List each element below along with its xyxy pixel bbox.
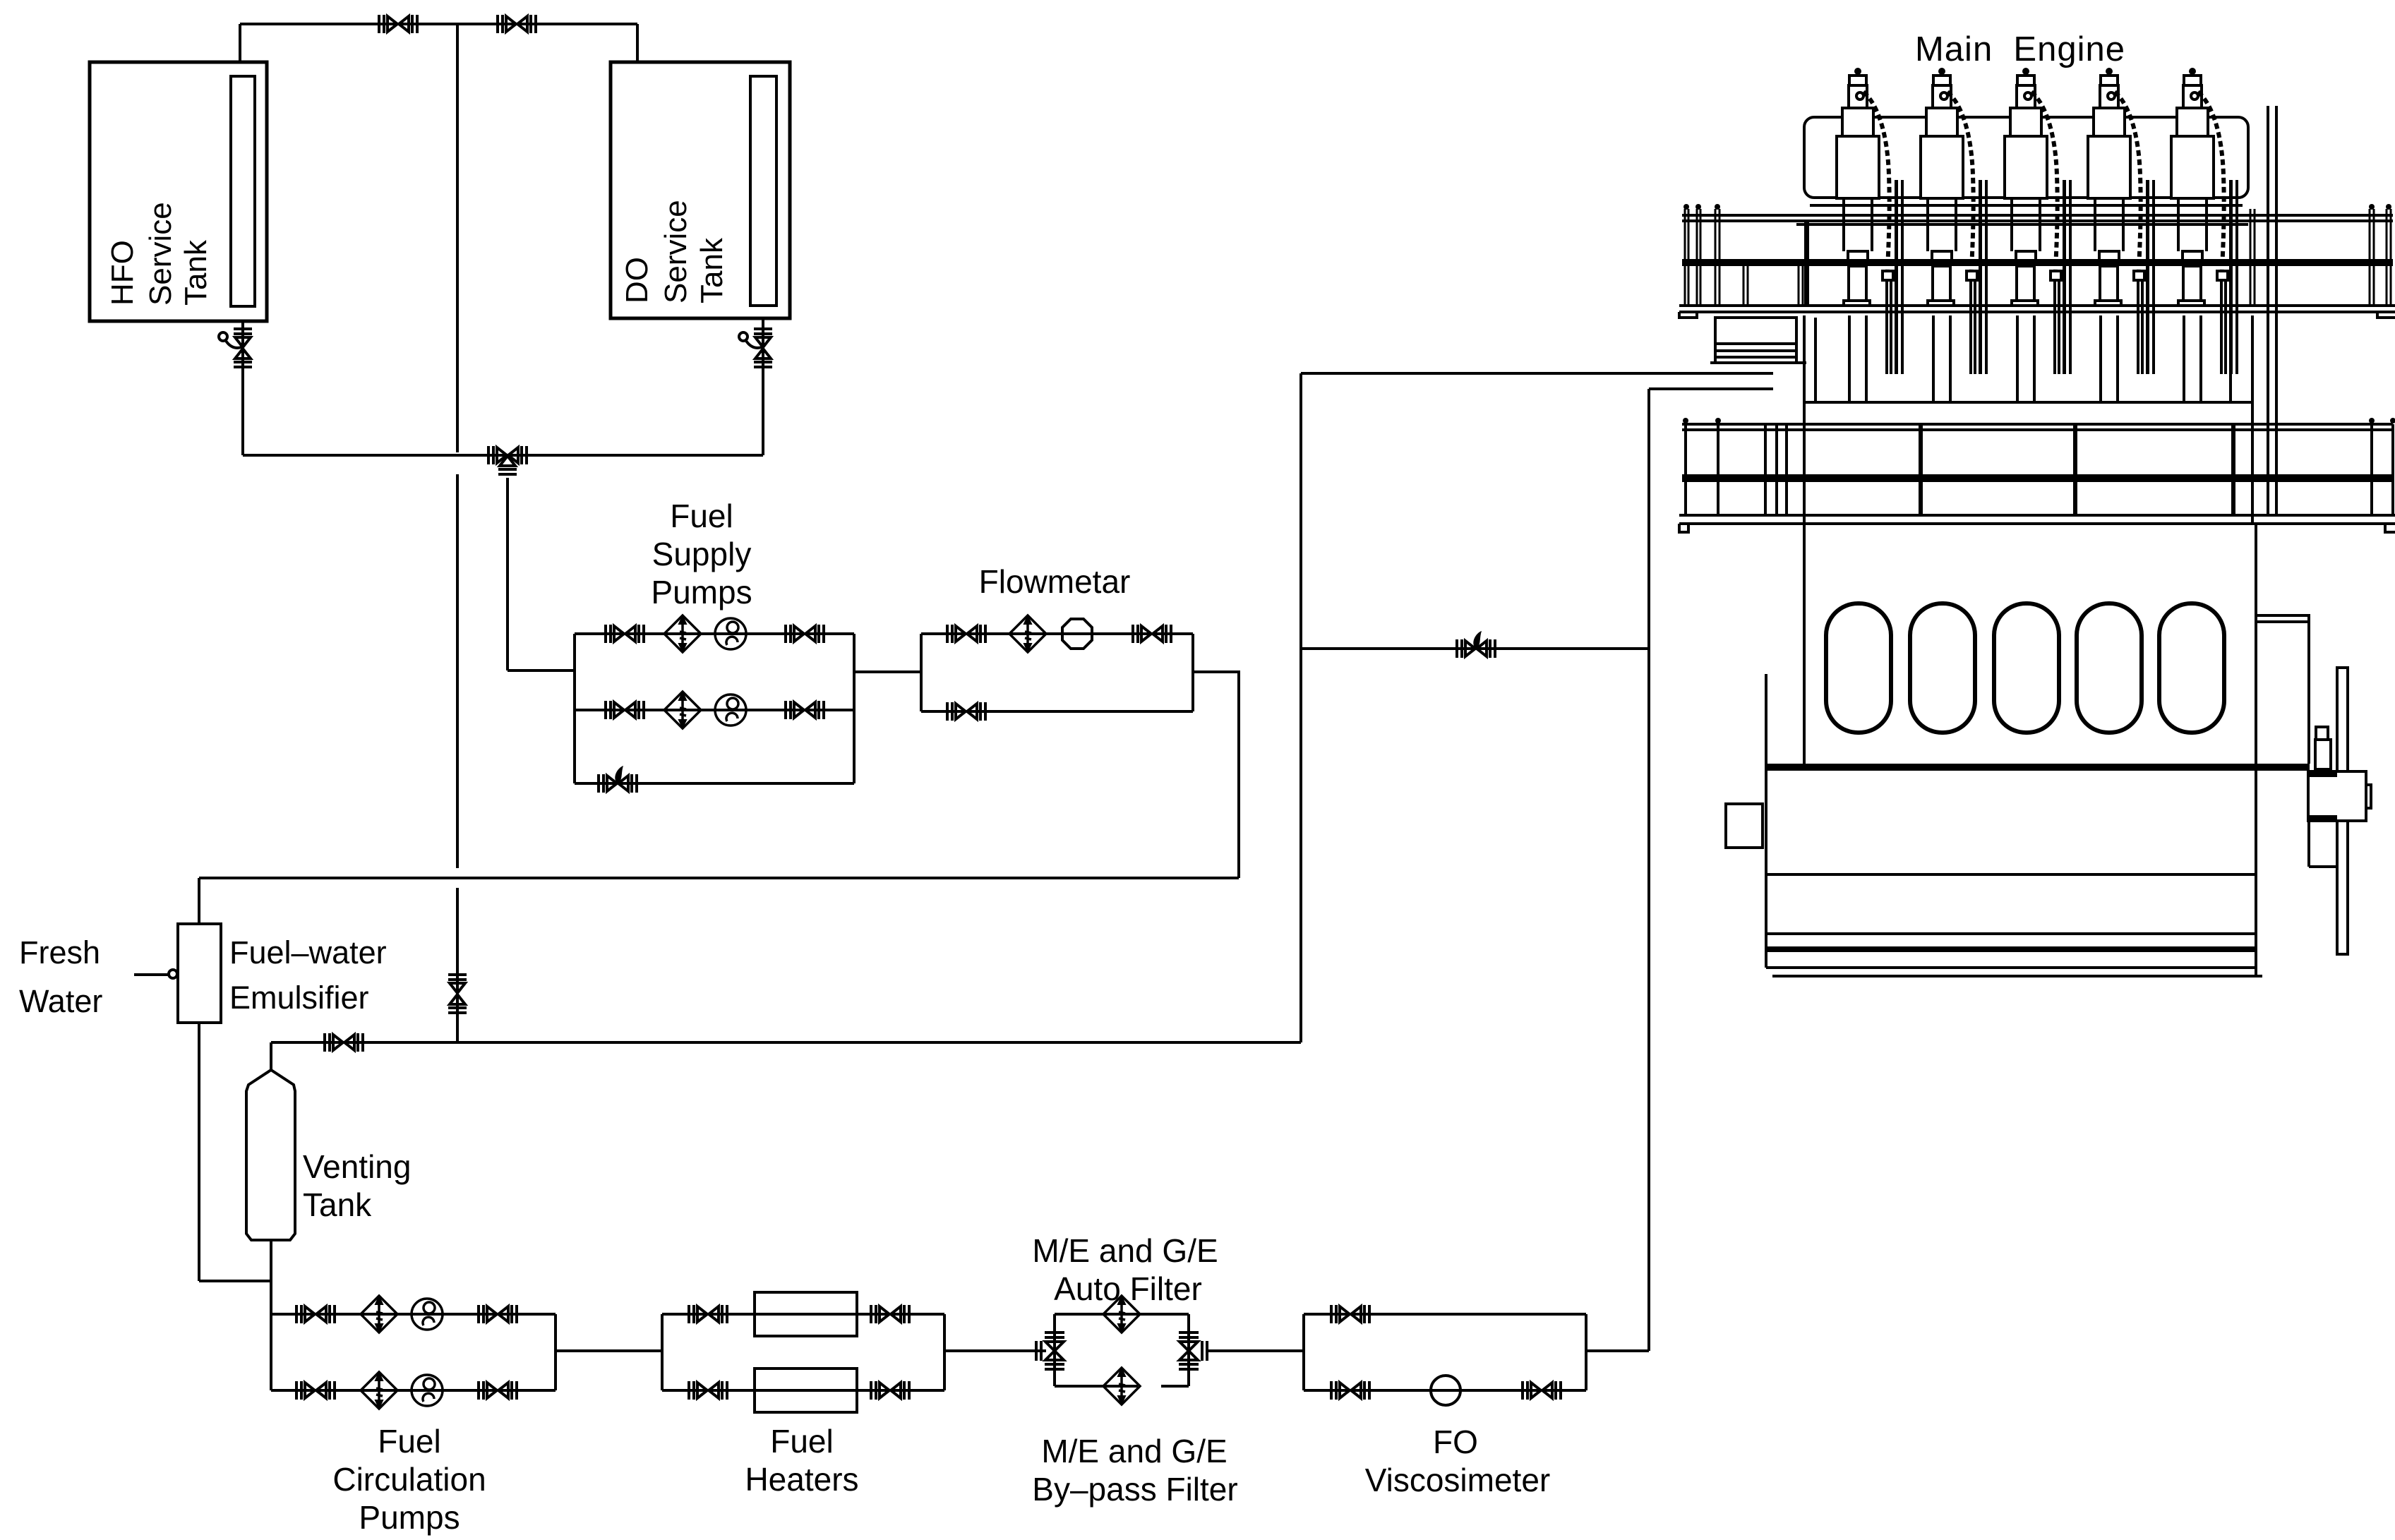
svg-text:Venting: Venting: [303, 1148, 411, 1185]
wire flowmeter top rail: [921, 632, 1193, 635]
crankcase door no.1: [1826, 603, 1891, 733]
main engine cylinder unit no.2: [1921, 68, 1988, 402]
svg-text:Tank: Tank: [179, 239, 213, 306]
lower platform floor bottom: [1679, 522, 2395, 525]
valve V8 supply pump no.1 discharge: [786, 625, 824, 643]
wire viscosimeter bottom rail: [1304, 1389, 1586, 1392]
svg-text:Fuel–water: Fuel–water: [229, 934, 387, 970]
flywheel disc: [2337, 668, 2348, 954]
skirt box below upper floor left: [1715, 318, 1796, 363]
valve V15 venting tank inlet: [325, 1033, 363, 1052]
fresh water injection line: [134, 973, 168, 976]
engine mid band left side: [1803, 315, 1806, 523]
filter F5 circulation pump no.2: [361, 1372, 397, 1409]
wire crossover bypass line: [1301, 647, 1649, 650]
lower railing middle posts: [1921, 424, 2233, 515]
exhaust duct verticals right side: [2268, 106, 2276, 515]
fuel supply pump unit box: [573, 634, 576, 783]
svg-text:FO: FO: [1433, 1424, 1478, 1460]
filter F4 circulation pump no.1: [361, 1296, 397, 1333]
valve V26 filter outlet junction (vertical bowtie): [1179, 1333, 1199, 1369]
HFO service tank T1: [90, 62, 267, 321]
lower platform handrail top: [1682, 423, 2393, 426]
lower railing posts left cluster: [1686, 424, 1804, 515]
DO service tank T2: [611, 62, 790, 318]
wire viscosimeter box right edge: [1585, 1314, 1587, 1390]
main engine entablature housing: [1804, 117, 2248, 198]
svg-text:Emulsifier: Emulsifier: [229, 980, 369, 1016]
valve V12 flowmeter inlet: [947, 625, 985, 643]
wire return drop into emulsifier: [198, 878, 200, 924]
lower platform handrail second line: [1682, 428, 2393, 431]
wire engine return top run: [1301, 372, 1773, 375]
svg-text:Tank: Tank: [303, 1186, 372, 1223]
bedplate thick band: [1766, 946, 2256, 952]
svg-text:Fresh: Fresh: [19, 934, 100, 970]
wire coupling lower stem: [2307, 821, 2310, 867]
wire filter block left riser: [1053, 1314, 1056, 1386]
filter block inlet flanges: [1036, 1341, 1041, 1361]
flowmeter unit box left edge: [920, 634, 923, 711]
oil pan split line (thick): [1766, 764, 2310, 771]
skirt struts below upper floor: [1815, 318, 2231, 402]
wire emulsifier outlet run to pump suction: [199, 1280, 271, 1282]
wire vent standpipe middle segment (hop gap at manifold): [456, 474, 459, 868]
fuel circulation pumps box left edge: [270, 1314, 272, 1390]
filter F7 by-pass filter: [1103, 1368, 1140, 1404]
upper railing posts right cluster: [2250, 209, 2391, 306]
wire venting tank outlet drop: [270, 1240, 272, 1314]
bedplate rail line 2: [1766, 932, 2256, 935]
valve V19 circulation pump no.2 suction: [296, 1381, 335, 1400]
wire vent standpipe upper segment: [456, 24, 459, 452]
upper railing lower posts left: [1743, 266, 1803, 306]
lower platform mid rail (thick): [1682, 474, 2393, 482]
svg-text:Fuel: Fuel: [378, 1423, 440, 1460]
wire venting tank neck: [270, 1042, 272, 1070]
main engine cylinder unit no.5: [2171, 68, 2238, 402]
wire HFO outlet drop: [241, 321, 244, 455]
svg-text:Fuel: Fuel: [770, 1423, 833, 1460]
upper railing post finials: [1683, 204, 2391, 210]
HFO tank sounding pipe: [231, 76, 255, 306]
lower platform floor top: [1679, 514, 2395, 517]
wire vent/overflow line to venting tank: [271, 1041, 1301, 1044]
valve V2 on fill header: [498, 15, 536, 33]
wire selector outlet drop to supply pumps: [506, 478, 509, 670]
valve V17 circulation pump no.1 suction: [296, 1305, 335, 1323]
filter F1 supply pump no.1: [664, 615, 701, 652]
svg-text:Tank: Tank: [695, 237, 729, 303]
svg-text:By–pass Filter: By–pass Filter: [1032, 1471, 1237, 1508]
valve V21 heater no.1 inlet: [689, 1305, 727, 1323]
svg-text:Viscosimeter: Viscosimeter: [1365, 1462, 1550, 1498]
wire circulation to heaters: [556, 1349, 662, 1352]
valve V4 HFO tank outlet (quick-closing): [219, 329, 252, 367]
wire tank outlet manifold: [243, 454, 763, 457]
wire HFO tank top riser: [239, 24, 241, 62]
coupling bottom dark band: [2308, 815, 2337, 821]
crankcase door no.2: [1910, 603, 1975, 733]
wire flowmeter outlet jog: [1193, 672, 1239, 878]
wire filter block right riser: [1187, 1314, 1190, 1386]
valve V11 supply bypass relief: [599, 766, 637, 793]
wire DO tank top riser: [636, 24, 639, 62]
wire by-pass filter bottom rail left: [1055, 1385, 1138, 1388]
wire supply pump suction: [508, 669, 575, 672]
svg-text:M/E and G/E: M/E and G/E: [1032, 1232, 1218, 1269]
lower platform floor left tab: [1679, 524, 1688, 532]
wire auto filter top rail: [1055, 1313, 1189, 1316]
valve V16 crossover relief: [1457, 631, 1495, 658]
filter block outlet flanges: [1202, 1341, 1207, 1361]
valve V6 three-way fuel selector: [488, 446, 527, 474]
wire viscosimeter outlet to feed riser: [1586, 1349, 1649, 1352]
foundation line: [1772, 975, 2262, 977]
bedplate rail line 1: [1766, 873, 2256, 876]
wire heaters box right edge: [943, 1314, 946, 1390]
svg-text:Main Engine: Main Engine: [1915, 30, 2125, 68]
coupling top dark band: [2308, 771, 2337, 777]
upper platform floor bottom: [1679, 311, 2395, 313]
wire circulation bottom rail: [271, 1389, 556, 1392]
upper platform floor left tab: [1679, 312, 1697, 318]
wire supply to flowmeter: [854, 670, 921, 673]
valve V27 viscosimeter top line: [1331, 1305, 1369, 1323]
fuel-water emulsifier vessel: [178, 924, 221, 1023]
svg-text:Flowmetar: Flowmetar: [979, 563, 1131, 600]
wire vent standpipe lower segment (hop gap at return line): [456, 888, 459, 1042]
wire supply box right edge: [853, 634, 856, 783]
meter M2 FO viscosimeter sensor: [1431, 1376, 1460, 1405]
main engine cylinder unit no.1: [1837, 68, 1904, 402]
wire filters to viscosimeter: [1207, 1349, 1304, 1352]
wire tank fill/vent header: [240, 23, 637, 25]
wire engine return riser: [1299, 373, 1302, 1042]
main engine cylinder unit no.4: [2088, 68, 2155, 402]
valve V18 circulation pump no.1 discharge: [479, 1305, 517, 1323]
crankcase door no.4: [2077, 603, 2142, 733]
wire emulsifier outlet drop: [198, 1023, 200, 1281]
main engine entablature bottom edge: [1810, 204, 2243, 207]
turning gear body: [2315, 740, 2331, 769]
wire viscosimeter top rail: [1304, 1313, 1586, 1316]
valve V23 heater no.2 inlet: [689, 1381, 727, 1400]
engine left foot block: [1726, 804, 1763, 848]
valve V29 viscosimeter bottom outlet: [1523, 1381, 1561, 1400]
wire flowmeter bypass rail: [921, 710, 1193, 713]
valve V5 DO tank outlet (quick-closing): [739, 329, 772, 367]
wire supply mid rail: [575, 709, 854, 711]
heater H2 fuel heater no.2: [755, 1368, 857, 1412]
svg-text:Heaters: Heaters: [745, 1461, 858, 1498]
valve V3 on vent standpipe: [448, 975, 467, 1013]
upper platform handrail top: [1682, 214, 2393, 217]
valve V25 filter inlet junction (vertical bowtie): [1045, 1333, 1064, 1369]
wire heaters bottom rail: [662, 1389, 944, 1392]
svg-text:Circulation: Circulation: [332, 1461, 486, 1498]
svg-text:Supply: Supply: [652, 536, 752, 572]
filter F3 flowmeter: [1009, 615, 1046, 652]
valve V7 supply pump no.1 suction: [606, 625, 644, 643]
filter F6 auto filter: [1103, 1296, 1140, 1333]
engine block right wall: [2255, 524, 2257, 976]
viscosimeter box left edge: [1302, 1314, 1305, 1390]
filter F2 supply pump no.2: [664, 692, 701, 728]
upper railing thick post at housing edge: [1804, 221, 1809, 306]
valve V20 circulation pump no.2 discharge: [479, 1381, 517, 1400]
wire engine feed riser: [1647, 389, 1650, 1351]
wire mixing return line: [199, 877, 1239, 879]
heater H1 fuel heater no.1: [755, 1292, 857, 1336]
lower platform floor right tab: [2385, 524, 2395, 532]
svg-text:HFO: HFO: [105, 240, 140, 306]
lower railing post finials: [1683, 418, 2395, 423]
valve V28 viscosimeter bottom inlet: [1331, 1381, 1369, 1400]
pump P3 fuel circulation pump no.1: [412, 1299, 443, 1330]
meter M1 flowmeter: [1062, 619, 1092, 649]
valve V22 heater no.1 outlet: [871, 1305, 909, 1323]
main engine cylinder unit no.3: [2005, 68, 2072, 402]
turning gear cap: [2316, 727, 2328, 740]
svg-text:Water: Water: [19, 983, 102, 1019]
fresh water injection nozzle: [169, 970, 177, 978]
upper platform floor top: [1679, 304, 2395, 307]
wire engine feed top run: [1649, 387, 1773, 390]
engine mid band right side: [2251, 315, 2254, 523]
pump P4 fuel circulation pump no.2: [412, 1375, 443, 1406]
crankcase door no.3: [1994, 603, 2059, 733]
svg-text:Pumps: Pumps: [359, 1499, 460, 1536]
wire heaters top rail: [662, 1313, 944, 1316]
valve V13 flowmeter outlet: [1133, 625, 1171, 643]
svg-text:Service: Service: [143, 202, 178, 306]
wire by-pass filter bottom rail right: [1161, 1385, 1189, 1388]
wire supply top rail: [575, 632, 854, 635]
wire coupling lower shelf: [2309, 865, 2337, 868]
wire circulation box right edge: [554, 1314, 557, 1390]
svg-text:DO: DO: [620, 257, 654, 303]
engine mid band lower edge: [1804, 401, 2252, 404]
main engine entablature support shelf: [1796, 223, 2248, 226]
bedplate bottom line: [1766, 966, 2256, 969]
valve V1 on fill header: [379, 15, 417, 33]
pump P1 fuel supply pump no.1: [715, 618, 746, 649]
engine right side housing: [2256, 615, 2309, 764]
wire DO outlet drop: [762, 318, 764, 455]
wire flowmeter box right edge: [1192, 634, 1194, 711]
engine right side housing top inner line: [2256, 620, 2309, 623]
skirt box shelf lines: [1710, 344, 1806, 363]
engine block left wall: [1803, 524, 1806, 766]
upper railing posts left cluster (pairs): [1685, 209, 1719, 306]
svg-text:Fuel: Fuel: [670, 498, 733, 534]
upper platform mid rail (thick): [1682, 259, 2393, 266]
upper platform floor right tab: [2377, 312, 2395, 318]
coupling right tab: [2366, 785, 2371, 808]
svg-text:M/E and G/E: M/E and G/E: [1041, 1433, 1227, 1469]
crankcase door no.5: [2159, 603, 2224, 733]
venting tank vessel: [246, 1070, 295, 1240]
wire supply bypass rail: [575, 782, 854, 785]
valve V14 flowmeter bypass: [947, 702, 985, 721]
pump P2 fuel supply pump no.2: [715, 694, 746, 726]
wire circulation top rail: [271, 1313, 556, 1316]
bedplate left wall: [1765, 674, 1767, 968]
wire heaters to filters: [944, 1349, 1046, 1352]
valve V24 heater no.2 outlet: [871, 1381, 909, 1400]
lower railing posts right cluster: [2252, 424, 2393, 515]
valve V9 supply pump no.2 suction: [606, 701, 644, 719]
svg-text:Pumps: Pumps: [651, 574, 752, 610]
DO tank sounding pipe: [750, 76, 776, 306]
upper platform handrail second line: [1682, 219, 2393, 222]
shaft coupling block: [2308, 771, 2366, 821]
svg-text:Service: Service: [659, 200, 693, 303]
fuel heaters box left edge: [661, 1314, 664, 1390]
valve V10 supply pump no.2 discharge: [786, 701, 824, 719]
